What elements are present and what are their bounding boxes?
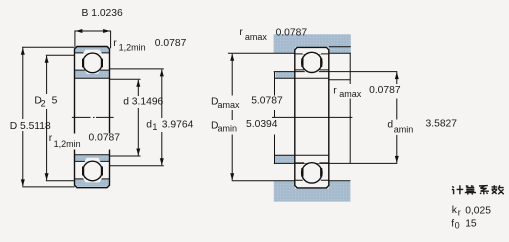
- CJK glyph xi: [479, 186, 489, 195]
- da extension line bottom: [274, 162, 397, 164]
- svg-text:15: 15: [465, 219, 477, 230]
- CJK glyph suan: [465, 185, 476, 194]
- right bearing ring surface lines bottom section: [295, 155, 329, 180]
- right bearing ring surface lines top section: [295, 54, 329, 78]
- svg-text:r: r: [239, 27, 243, 38]
- svg-text:5.0787: 5.0787: [251, 96, 283, 107]
- svg-text:2: 2: [41, 99, 46, 109]
- svg-text:amax: amax: [245, 32, 268, 42]
- svg-text:r: r: [458, 208, 461, 218]
- shoulder edges top: [82, 59, 84, 68]
- shoulder extension lines for d1: [110, 69, 164, 166]
- svg-text:d: d: [387, 120, 393, 131]
- svg-text:5.0394: 5.0394: [246, 119, 278, 130]
- dimension D2: extension + line + arrows: [46, 55, 75, 181]
- svg-text:d 3.1496: d 3.1496: [123, 97, 163, 108]
- housing bore line right of bearing: [329, 46, 351, 48]
- groove notch outer band bottom: [83, 178, 102, 182]
- shaft shoulder strip bottom-left (shaded): [275, 156, 295, 163]
- bearing inner ring band top (shaded): [75, 70, 110, 78]
- groove notch inner band top: [85, 70, 101, 74]
- svg-text:3.5827: 3.5827: [426, 119, 458, 130]
- dimension d1: line + arrows: [161, 70, 163, 166]
- svg-text:3.9764: 3.9764: [162, 120, 194, 131]
- centerline right: [272, 116, 352, 118]
- shaft/housing end face right (vertical): [349, 53, 351, 163]
- label damin 3.5827: [386, 120, 456, 136]
- svg-text:1: 1: [152, 122, 157, 132]
- svg-text:amin: amin: [218, 124, 238, 134]
- shaft seat line bottom-left: [275, 154, 295, 156]
- label d 3.1496: [121, 96, 171, 108]
- svg-text:r: r: [333, 86, 337, 97]
- svg-text:amax: amax: [218, 100, 241, 110]
- label d1 3.9764: [146, 118, 197, 132]
- svg-text:1,2min: 1,2min: [54, 139, 81, 149]
- shaft shoulder strip top-left (shaded): [276, 72, 295, 78]
- calculation factors title (CJK approximated strokes): [452, 185, 504, 194]
- ring surface lines bottom section: [75, 155, 141, 179]
- da extension line top: [274, 71, 398, 73]
- svg-text:D 5.5118: D 5.5118: [10, 121, 51, 132]
- label r 1,2min 0.0787 (bottom): [48, 134, 123, 150]
- shaft bottom bar (shaded): [274, 181, 351, 201]
- svg-text:d: d: [146, 120, 152, 131]
- label Damin 5.0394: [209, 121, 282, 135]
- svg-text:r: r: [113, 38, 117, 49]
- bearing outline rectangle: [75, 47, 110, 188]
- label r amax 0.0787 (mid right): [331, 84, 402, 99]
- svg-text:0.0787: 0.0787: [155, 38, 187, 49]
- CJK glyph ji: [452, 185, 463, 194]
- bearing outer ring band top (shaded): [75, 47, 110, 54]
- svg-text:0.0787: 0.0787: [369, 85, 401, 96]
- svg-text:B 1.0236: B 1.0236: [82, 8, 123, 19]
- ring surface lines top section: [75, 53, 141, 79]
- svg-text:1,2min: 1,2min: [119, 42, 146, 52]
- svg-text:5: 5: [52, 96, 58, 107]
- shaft surface line right of bearing (top half): [329, 79, 350, 81]
- label Damax 5.0787: [209, 96, 285, 111]
- right ball bottom: [302, 163, 322, 183]
- dimension d: line + arrows: [137, 80, 139, 156]
- svg-text:amax: amax: [339, 89, 362, 99]
- ball bottom: [83, 161, 103, 181]
- bar top outline / Da extension bottom: [232, 180, 351, 182]
- bearing inner ring band bottom (shaded): [75, 155, 110, 161]
- groove notch inner band bottom: [85, 158, 101, 162]
- svg-text:amin: amin: [394, 124, 414, 134]
- right bearing outline: [295, 47, 329, 188]
- ball top: [83, 53, 103, 73]
- right ball top: [302, 52, 322, 72]
- centerline left: [72, 116, 114, 118]
- groove notch outer band top: [83, 50, 102, 54]
- shaft end face left (vertical): [274, 72, 276, 164]
- dimension D: extension + line + arrows: [22, 47, 75, 187]
- svg-text:0: 0: [455, 221, 460, 231]
- dimension Da: line + arrows: [231, 54, 233, 181]
- svg-text:r: r: [49, 133, 53, 144]
- Da extension line top / bar bottom outline: [228, 52, 351, 54]
- bearing outer ring band bottom (shaded): [75, 179, 110, 187]
- housing bar top (shaded): [274, 34, 351, 53]
- dimension da: line + arrows: [396, 72, 398, 163]
- shaft seat line top-left: [275, 77, 295, 79]
- svg-text:0.0787: 0.0787: [276, 27, 308, 38]
- dimension B: extension lines: [75, 31, 111, 49]
- shoulder edges bottom: [82, 167, 84, 176]
- right groove notches: [302, 51, 321, 55]
- svg-text:0.0787: 0.0787: [89, 132, 121, 143]
- dimension B arrows: [75, 29, 82, 33]
- CJK glyph shu: [492, 185, 504, 194]
- svg-text:0,025: 0,025: [465, 206, 491, 217]
